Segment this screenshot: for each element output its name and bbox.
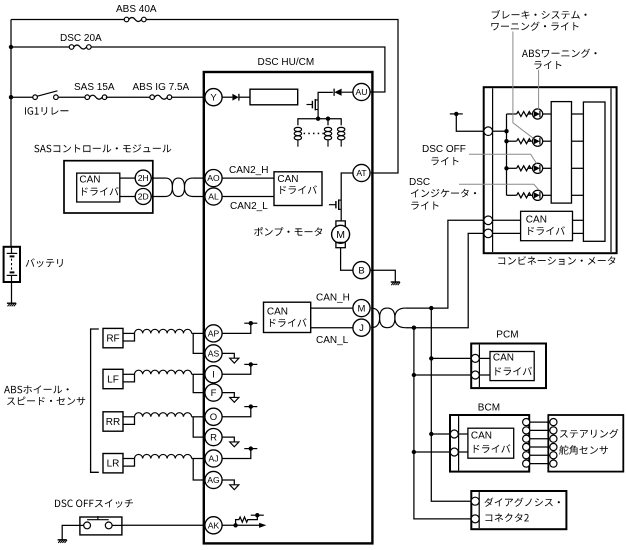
pin AO [205, 170, 222, 187]
meter connector line left [492, 88, 494, 252]
label pump motor [254, 227, 322, 236]
node coil junction [326, 117, 330, 121]
label battery [26, 258, 63, 267]
twisted pair CAN2 [166, 178, 194, 196]
svg-text:AG: AG [207, 475, 220, 485]
wire CAN_L to meter [406, 233, 485, 327]
wire AP to net tie [222, 323, 251, 333]
transistor Q1 [307, 104, 313, 106]
sensor LF wheel speed [103, 369, 123, 388]
wire resistor to LED 1 [528, 113, 533, 115]
wire CAN_H to PCM [431, 357, 471, 359]
pin AS [205, 345, 222, 362]
wire AT to Q2 [341, 173, 353, 221]
net tie I [244, 363, 257, 365]
svg-text:2D: 2D [138, 192, 149, 202]
pin meter CAN_H [484, 216, 493, 225]
label IG1 relay [25, 107, 68, 115]
label DSC indicator line3 [411, 201, 438, 209]
label DSC indicator line2 [411, 189, 476, 198]
wire LED 3 to block [543, 167, 552, 169]
label DSC OFF switch [55, 499, 133, 508]
node rail/IG junction [9, 95, 13, 99]
wire CAN_H chain to diagnosis [431, 308, 471, 501]
wire coil to pin I [192, 373, 205, 375]
wire LED 1 to block [543, 113, 552, 115]
sensor LR wheel speed [103, 454, 123, 473]
pin AK [205, 517, 222, 534]
wire BCM to steering sensor 4 [530, 446, 550, 448]
LED brake system warning light [533, 136, 543, 146]
wire CAN driver to 2H [120, 177, 135, 179]
IC CAN driver BCM [468, 428, 514, 458]
BCM connector line [458, 416, 460, 470]
wire BCM to steering sensor 1 [530, 421, 550, 423]
resistor AK pull-up [236, 515, 258, 525]
IC CAN driver DSC lower [264, 302, 311, 332]
node CAN_L/PCM junction [412, 373, 416, 377]
label ABS wheel speed sensor line1 [4, 385, 69, 393]
label steering angle line1 [560, 429, 619, 438]
wire B to ground [370, 270, 395, 281]
pin steering sensor 6 [550, 460, 557, 467]
label diagnosis line2 [485, 513, 528, 522]
ground DSC OFF switch [58, 539, 67, 541]
wire coil to pin O [192, 416, 205, 418]
pin 2D [135, 189, 151, 205]
twisted pair CAN [371, 308, 406, 328]
PCM connector line [478, 345, 480, 387]
wire RR lead2 step [123, 417, 135, 425]
meter combination outer [484, 87, 617, 253]
svg-text:R: R [210, 433, 217, 444]
svg-text:CAN2_H: CAN2_H [229, 165, 268, 176]
node bus feed junction [504, 129, 508, 133]
wire LR lead1 [123, 458, 135, 460]
wire RF lead2 step [123, 333, 135, 341]
diode D2 [333, 89, 335, 96]
wire BCM pin2 internal [459, 451, 468, 453]
leader DSC indicator light [459, 184, 539, 190]
svg-text:PCM: PCM [496, 330, 518, 341]
wire AO to CAN driver [222, 177, 274, 179]
pin 2H [135, 170, 151, 186]
node rail/DSC20A junction [9, 45, 13, 49]
wire CAN_H to meter [406, 220, 485, 308]
ground battery [7, 302, 16, 304]
wire lamp row 3 [507, 167, 517, 169]
leader ABS warning light [538, 70, 540, 109]
wire BCM to steering sensor 2 [530, 429, 550, 431]
wire lamp row 4 [507, 194, 517, 196]
wire RF lead1 [123, 332, 135, 334]
wire PCM pin2 internal [479, 374, 490, 376]
wire twist to AL [193, 196, 205, 198]
pin O [205, 408, 222, 425]
leader brake system warning light [513, 32, 533, 139]
pin BCM steering 4 [523, 443, 530, 450]
wire switch to ground [62, 525, 80, 539]
label ABS warning line1 [522, 49, 597, 58]
diode D1 [232, 94, 238, 101]
resistor lamp 1 [517, 112, 531, 117]
pin AL [205, 188, 222, 205]
svg-text:AJ: AJ [208, 454, 218, 464]
wire Y to diode [222, 96, 232, 98]
wire drop to pin R [193, 417, 205, 437]
svg-text:CAN_L: CAN_L [316, 335, 349, 346]
wire resistor to LED 2 [528, 140, 533, 142]
svg-text:CAN: CAN [471, 431, 492, 442]
resistor lamp 3 [517, 166, 531, 171]
wire F to ground [222, 393, 234, 398]
pin J [353, 319, 370, 336]
svg-text:DSC HU/CM: DSC HU/CM [258, 57, 315, 68]
wire I to net tie [222, 364, 251, 374]
pin steering sensor 4 [550, 443, 557, 450]
wire CAN driver to block2 row a [573, 219, 584, 221]
solenoid coil L2 [324, 127, 331, 131]
fuse ABS 40A [124, 17, 129, 22]
svg-text:CAN: CAN [79, 175, 100, 186]
wire LF lead1 [123, 373, 135, 375]
cable coil LF [135, 370, 192, 374]
wire drop to pin AS [193, 333, 205, 353]
wire meter feed [456, 114, 484, 131]
node AK junction [233, 523, 237, 527]
wire BCM to steering sensor 6 [530, 463, 550, 465]
arrow AK signal [259, 523, 266, 528]
label brake system warning line2 [491, 22, 578, 31]
ground triangle AG [230, 485, 239, 490]
node CAN_H junction [429, 306, 433, 310]
LED DSC indicator light [533, 190, 543, 200]
wire R to ground [222, 437, 234, 442]
wire AS to ground [222, 353, 234, 358]
transistor Q2 [329, 204, 336, 206]
svg-text:RF: RF [106, 334, 119, 345]
relay coil box [250, 89, 298, 105]
wire B+ rail (battery feed) [10, 20, 12, 247]
ECU DSC HU/CM [204, 72, 373, 543]
switch DSC OFF [80, 517, 122, 535]
node bus row2 [504, 139, 508, 143]
net tie AP [244, 322, 257, 324]
diagnosis connector line [478, 492, 480, 528]
svg-text:AU: AU [356, 87, 368, 97]
pin AP [205, 325, 222, 342]
node CAN_L junction [412, 326, 416, 330]
label DSC OFF light line2 [431, 157, 458, 165]
wire LED 4 to block [543, 194, 552, 196]
svg-text:AS: AS [208, 349, 220, 359]
wire ABS 40A feed [11, 19, 124, 21]
svg-text:CAN: CAN [267, 306, 288, 317]
net tie O [244, 406, 257, 408]
label SAS control module [34, 144, 171, 152]
wire BCM pin1 internal [459, 433, 468, 435]
pin BCM steering 6 [523, 460, 530, 467]
svg-text:M: M [358, 304, 366, 315]
pin BCM CAN_L [450, 448, 458, 456]
pin AU [353, 83, 370, 100]
connector diagnosis 2 [471, 491, 566, 529]
wire 2H to twist [151, 177, 165, 179]
wire CAN_L to BCM [414, 451, 451, 453]
ground triangle AS [230, 358, 239, 363]
wire solenoid bus [298, 118, 341, 120]
pin meter CAN_L [484, 229, 493, 238]
wire block1 to block2 row 2 [572, 140, 584, 142]
wire CAN driver to 2D [120, 196, 135, 198]
pin M [353, 300, 370, 317]
net tie AK [251, 514, 264, 516]
svg-text:LF: LF [107, 375, 119, 386]
IC CAN driver DSC upper [274, 172, 322, 206]
svg-text:CAN_H: CAN_H [316, 293, 350, 304]
net tie meter feed [450, 113, 463, 115]
node CAN_L/BCM junction [412, 450, 416, 454]
meter connector line right [610, 88, 612, 252]
wire AJ to net tie [222, 449, 251, 459]
wire CAN_H to BCM [431, 433, 450, 435]
svg-text:RR: RR [106, 417, 120, 428]
pin AJ [205, 450, 222, 467]
svg-text:J: J [359, 323, 364, 334]
wire AK internal [222, 524, 259, 526]
svg-text:CAN2_L: CAN2_L [230, 201, 268, 212]
wire meter CAN_H internal [493, 219, 521, 221]
pin I [205, 366, 222, 383]
pin steering sensor 3 [550, 435, 557, 442]
pin steering sensor 2 [550, 427, 557, 434]
wire twist to AO [193, 177, 205, 179]
svg-text:AO: AO [207, 173, 220, 183]
cable coil RR [135, 413, 192, 417]
label steering angle line2 [559, 445, 608, 454]
wire lamp row 2 [507, 140, 517, 142]
wire lamp bus [506, 114, 508, 195]
svg-text:CAN: CAN [277, 174, 298, 185]
svg-text:SAS 15A: SAS 15A [74, 82, 115, 93]
IC CAN driver PCM [490, 352, 534, 381]
svg-text:O: O [210, 412, 217, 423]
svg-text:B: B [358, 266, 364, 277]
wire lamp row 1 [507, 113, 517, 115]
wire resistor to LED 4 [528, 194, 533, 196]
wire SAS fuse to ABS IG fuse [106, 96, 150, 98]
wire DSC 20A to AU [91, 47, 385, 92]
pin steering sensor 1 [550, 419, 557, 426]
battery [4, 247, 20, 282]
IC CAN driver meter [521, 211, 573, 240]
svg-text:ABS 40A: ABS 40A [116, 4, 157, 15]
pin AT [353, 164, 370, 181]
svg-text:M: M [336, 229, 345, 241]
svg-text:Y: Y [210, 93, 217, 104]
svg-text:AP: AP [208, 329, 220, 339]
node CAN_H/BCM junction [429, 432, 433, 436]
wire DSC 20A feed [11, 46, 69, 48]
module PCM [471, 344, 546, 389]
pin B [353, 262, 370, 279]
svg-text:DSC 20A: DSC 20A [60, 33, 102, 44]
fuse DSC 20A [69, 45, 74, 50]
svg-text:DSC OFF: DSC OFF [422, 144, 466, 155]
wire drop to pin AG [193, 459, 205, 481]
wire block1 to block2 row 4 [572, 194, 584, 196]
wire relay to SAS fuse [58, 96, 86, 98]
ground triangle F [230, 397, 239, 402]
wire 2D to twist [151, 196, 165, 198]
wire meter CAN_L internal [493, 232, 521, 234]
meter block 1 [551, 102, 571, 204]
bracket ABS wheel speed sensors [91, 329, 99, 472]
cable coil LR [135, 454, 192, 458]
fuse ABS IG 7.5A [150, 95, 155, 100]
label brake system warning line1 [492, 10, 587, 19]
wire coil to pin AJ [192, 458, 205, 460]
label ABS warning line2 [534, 61, 561, 69]
relay IG1 contact [33, 95, 38, 100]
wire PCM pin1 internal [479, 357, 490, 359]
module BCM [450, 415, 529, 472]
wire motor to B [341, 248, 353, 271]
wire CAN driver to J [311, 327, 353, 329]
wire AL to CAN driver [222, 196, 274, 198]
wire block1 to block2 row 1 [572, 113, 584, 115]
node Q1/coil junction [316, 117, 320, 121]
svg-text:DSC: DSC [409, 177, 430, 188]
cable coil RF [135, 329, 192, 333]
wire AG to ground [222, 480, 234, 485]
wire BCM to steering sensor 5 [530, 454, 550, 456]
svg-text:F: F [211, 388, 217, 399]
pin F [205, 384, 222, 401]
svg-text:LR: LR [107, 459, 120, 470]
svg-text:2H: 2H [138, 173, 149, 183]
motor M pump [336, 221, 345, 226]
wire BCM to steering sensor 3 [530, 438, 550, 440]
sensor steering angle [548, 415, 623, 472]
LED ABS warning light [533, 109, 543, 119]
wire LR lead2 step [123, 459, 135, 467]
wire ABS IG fuse to pin Y [172, 96, 205, 98]
wire ABS 40A to AT [146, 20, 398, 174]
sensor RF wheel speed [103, 328, 123, 347]
wire RR lead1 [123, 416, 135, 418]
label combination meter [498, 256, 615, 265]
pin BCM steering 2 [523, 427, 530, 434]
svg-text:CAN: CAN [526, 214, 547, 225]
pin Y [205, 89, 222, 106]
ellipsis dots (more coils) [304, 133, 306, 135]
pin R [205, 429, 222, 446]
resistor lamp 4 [517, 193, 531, 198]
svg-text:AL: AL [208, 192, 219, 202]
pin steering sensor 5 [550, 452, 557, 459]
wire battery to ground [11, 282, 13, 303]
solenoid coil L1 [294, 127, 301, 131]
pin PCM CAN_H [471, 354, 479, 362]
svg-text:AT: AT [356, 168, 367, 178]
wire CAN_L to PCM [414, 374, 472, 376]
pin BCM steering 5 [523, 452, 530, 459]
pin diagnosis CAN_L [471, 515, 479, 523]
wire drop to pin F [193, 374, 205, 392]
wire O to net tie [222, 407, 251, 417]
pin AG [205, 471, 222, 488]
node CAN_H/PCM junction [429, 356, 433, 360]
resistor lamp 2 [517, 139, 531, 144]
pin BCM CAN_H [450, 430, 458, 438]
wire coil to pin AP [192, 332, 205, 334]
pin BCM steering 3 [523, 435, 530, 442]
meter block 2 [583, 102, 605, 241]
wire switch to AK [122, 524, 205, 526]
svg-text:AK: AK [208, 520, 220, 530]
pin PCM CAN_L [471, 371, 479, 379]
sensor RR wheel speed [103, 412, 123, 431]
label ABS wheel speed sensor line2 [7, 397, 85, 406]
leader DSC OFF light [469, 154, 537, 163]
svg-text:I: I [212, 370, 215, 381]
wire feed to bus [493, 130, 507, 132]
node bus row3 [504, 166, 508, 170]
solenoid coil L3 [338, 127, 345, 131]
ground B [391, 281, 400, 283]
wire CAN driver to M [311, 307, 353, 309]
wire LF lead2 step [123, 374, 135, 382]
svg-text:BCM: BCM [478, 403, 500, 414]
ground triangle R [230, 442, 239, 447]
net tie AJ [244, 448, 257, 450]
wire resistor to LED 3 [528, 167, 533, 169]
module SAS control [64, 161, 153, 213]
wire block1 to block2 row 3 [572, 167, 584, 169]
wire LED 2 to block [543, 140, 552, 142]
wire CAN_L chain to diagnosis [414, 328, 472, 519]
svg-text:ABS IG 7.5A: ABS IG 7.5A [133, 82, 190, 93]
wire CAN driver to block2 row b [573, 232, 584, 234]
IC CAN driver SAS [77, 173, 120, 202]
wire rail to IG1 relay [11, 96, 33, 98]
pin BCM steering 1 [523, 419, 530, 426]
pin meter feed [484, 127, 493, 136]
LED DSC OFF light [533, 163, 543, 173]
label diagnosis line1 [484, 498, 559, 507]
svg-text:CAN: CAN [493, 352, 514, 363]
fuse SAS 15A [85, 95, 90, 100]
pin diagnosis CAN_H [471, 497, 479, 505]
